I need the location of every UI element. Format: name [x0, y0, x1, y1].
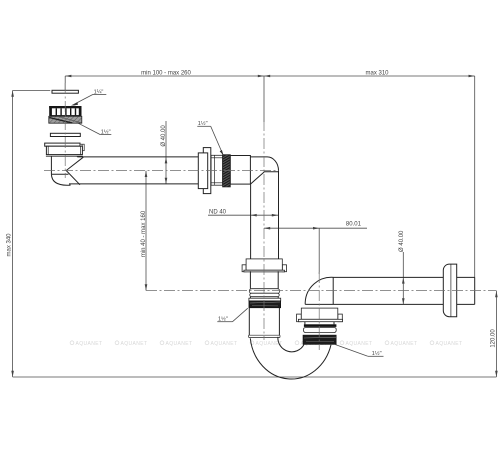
underline label trap inlet + leader — [217, 321, 232, 323]
watermark 3 — [160, 341, 192, 347]
arrow 80.01 right — [313, 227, 319, 230]
dimension line top min100max260 + max310 — [65, 75, 475, 77]
drain cup overflow ear — [80, 144, 84, 151]
arrow max310 right at pipe end — [469, 75, 475, 78]
extension line washer top — [13, 89, 51, 91]
svg-text:AQUANET: AQUANET — [346, 341, 373, 347]
arrow min40max160 top — [145, 171, 148, 177]
arrow max340 bottom — [11, 371, 14, 377]
watermark 2 — [115, 341, 147, 347]
elbow top miter — [251, 172, 279, 184]
extension line pipe end right — [474, 76, 476, 278]
dimension arrows — [11, 75, 497, 377]
outlet black o-ring — [304, 324, 337, 327]
centerlines — [44, 83, 496, 350]
dimension line ND40 — [208, 214, 278, 216]
underline label union + leader — [197, 125, 210, 127]
underline label trap outlet + leader — [368, 355, 384, 357]
dimension line diameter 40 top vertical — [165, 121, 167, 184]
watermark row @AQUANET — [70, 341, 462, 347]
watermark 8 — [385, 341, 417, 347]
svg-text:Ø 40.00: Ø 40.00 — [399, 230, 405, 252]
tailpiece walls — [50, 156, 52, 174]
downpipe left edge — [250, 184, 252, 259]
lower pipe end — [474, 277, 476, 304]
washer bottom — [50, 133, 80, 136]
dimension line diameter 40 bottom vertical — [402, 252, 404, 304]
extension line trap outlet centerline — [318, 228, 320, 274]
svg-text:AQUANET: AQUANET — [391, 341, 418, 347]
extension line downpipe centerline top — [263, 76, 265, 122]
arrow max310 left at downpipe centerline — [264, 75, 270, 78]
downpipe thread nut hatched — [249, 298, 281, 308]
arrow max340 top — [11, 91, 14, 97]
elbow drain outer arc — [51, 174, 70, 185]
underline label strainer + leader — [93, 93, 106, 95]
watermark 6 — [295, 341, 327, 347]
underline label gasket + leader — [100, 134, 111, 136]
lower pipe edges — [334, 276, 443, 278]
centerline trap outlet elbow vertical — [318, 272, 320, 350]
svg-text:max 340: max 340 — [7, 233, 13, 257]
union thread hatched — [223, 155, 231, 187]
centerline lower pipe horizontal — [146, 290, 496, 292]
arrow dia40bottom down — [402, 298, 405, 304]
watermark 5 — [250, 341, 282, 347]
svg-text:AQUANET: AQUANET — [166, 341, 193, 347]
dimension line left max340 — [12, 91, 14, 378]
dimension line 120.00 right vertical — [495, 291, 497, 377]
centerline downpipe vertical — [263, 120, 265, 340]
downpipe o-ring 1 — [249, 289, 279, 294]
arrow 120 top — [495, 291, 498, 297]
dimension line 80.01 — [264, 227, 367, 229]
svg-text:AQUANET: AQUANET — [121, 341, 148, 347]
outlet thread nut hatched — [303, 335, 336, 344]
union nut — [203, 148, 211, 194]
elbow top outline — [250, 157, 278, 259]
svg-text:AQUANET: AQUANET — [436, 341, 463, 347]
outlet nut — [297, 308, 343, 322]
outlet rounded band — [304, 328, 337, 333]
svg-text:ND 40: ND 40 — [209, 210, 227, 216]
drain cup flange — [45, 143, 80, 146]
arrow dia40top down — [165, 178, 168, 184]
arrow dia40top up — [165, 157, 168, 163]
downpipe nut — [242, 259, 286, 272]
outlet neck — [304, 322, 306, 325]
trap U inner arc — [278, 337, 304, 352]
arrowhead strainer leader — [72, 102, 78, 106]
watermark 7 — [340, 341, 372, 347]
extension line drain centerline top — [64, 76, 66, 90]
drain cup body — [46, 146, 83, 156]
union barrel — [230, 156, 250, 185]
arrow ND40 left — [251, 214, 257, 217]
elbow drain miter lines — [66, 157, 83, 185]
gasket hatched — [49, 116, 82, 123]
watermark 1 — [70, 341, 102, 347]
trap outlet elbow — [305, 277, 334, 304]
arrow 120 bottom — [495, 371, 498, 377]
watermark 9 — [430, 341, 462, 347]
svg-text:min 100 - max 260: min 100 - max 260 — [141, 70, 191, 76]
arrow 80.01 left — [264, 227, 270, 230]
trap U outer arc — [250, 338, 331, 379]
extension line trap bottom — [13, 376, 497, 378]
trap seam band — [249, 335, 280, 337]
arrowhead union leader — [220, 150, 224, 156]
dimension texts — [7, 70, 497, 347]
svg-text:Ø 40.00: Ø 40.00 — [161, 125, 167, 147]
svg-text:AQUANET: AQUANET — [76, 341, 103, 347]
union sleeve — [211, 155, 223, 185]
arrow top dim left at drain centerline — [65, 75, 71, 78]
downpipe below nut edges — [249, 271, 251, 289]
downpipe o-ring 2 — [250, 293, 279, 297]
svg-text:min 40 - max 160: min 40 - max 160 — [141, 210, 147, 257]
leader labels — [94, 89, 382, 357]
tailpiece socket step — [51, 173, 68, 175]
trap inlet arm edges — [248, 308, 250, 335]
svg-text:120.00: 120.00 — [490, 329, 496, 348]
dimension lines — [13, 76, 497, 377]
union plate — [198, 153, 207, 189]
centerline drain vertical — [64, 83, 66, 178]
wall flange — [443, 264, 456, 317]
dimension line min40max160 vertical — [145, 171, 147, 291]
strainer nut — [49, 106, 81, 117]
top pipe edges — [77, 156, 198, 158]
arrow top dim right at downpipe centerline — [258, 75, 264, 78]
centerline top pipe horizontal — [44, 170, 279, 172]
svg-text:max 310: max 310 — [365, 70, 389, 76]
arrow ND40 right — [272, 214, 278, 217]
arrow min40max160 bottom — [145, 284, 148, 290]
svg-text:AQUANET: AQUANET — [211, 341, 238, 347]
watermark 4 — [205, 341, 237, 347]
arrow dia40bottom up — [402, 277, 405, 283]
washer top — [52, 90, 78, 93]
svg-text:80.01: 80.01 — [346, 222, 362, 228]
